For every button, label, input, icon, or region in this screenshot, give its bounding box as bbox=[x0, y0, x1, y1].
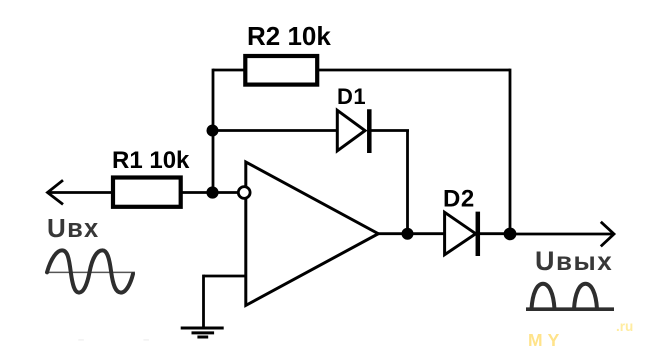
input arrow bbox=[48, 180, 114, 204]
output waveform hump 2 bbox=[574, 284, 597, 309]
svg-text:R1 10k: R1 10k bbox=[112, 147, 190, 174]
node junction R1/feedback bbox=[206, 186, 218, 198]
svg-text:MY: MY bbox=[528, 330, 564, 350]
output arrow bbox=[510, 222, 614, 247]
svg-text:Uвх: Uвх bbox=[47, 213, 100, 243]
resistor R1 bbox=[113, 178, 181, 207]
wire right vertical from top to output node bbox=[509, 69, 512, 234]
svg-text:R2 10k: R2 10k bbox=[247, 21, 331, 51]
wire D2 to output node bbox=[478, 232, 510, 235]
diode D1 bbox=[337, 109, 369, 153]
output waveform baseline bbox=[526, 307, 614, 311]
op-amp U1 triangle bbox=[246, 162, 378, 305]
node op-amp output junction bbox=[402, 228, 414, 240]
input sine waveform bbox=[47, 250, 133, 292]
wire non-inverting input bbox=[204, 275, 246, 278]
wire D1 row right segment bbox=[369, 129, 409, 132]
wire left vertical from top to R1 node bbox=[212, 69, 215, 193]
wire ground stem bbox=[202, 275, 205, 328]
ground symbol bbox=[181, 328, 224, 337]
wire D1 row left segment bbox=[213, 129, 338, 132]
op-amp inverting input bubble bbox=[238, 187, 250, 199]
wire op-amp output bbox=[378, 232, 445, 235]
svg-text:Uвых: Uвых bbox=[535, 246, 613, 276]
node junction D1/feedback bbox=[207, 125, 219, 137]
svg-text:D1: D1 bbox=[337, 84, 366, 109]
wire feedback top horizontal bbox=[213, 69, 510, 72]
svg-text:D2: D2 bbox=[443, 186, 475, 213]
wire vertical D1 to output node bbox=[406, 131, 409, 235]
output waveform hump 1 bbox=[532, 284, 555, 309]
node output junction bbox=[504, 228, 517, 241]
wire R1 to op-amp inverting input bbox=[180, 191, 239, 194]
svg-text:– –: – – bbox=[78, 334, 177, 346]
resistor R2 bbox=[245, 56, 317, 85]
svg-text:.ru: .ru bbox=[616, 319, 633, 334]
diode D2 bbox=[445, 212, 478, 256]
input sine waveform axis bbox=[46, 271, 135, 273]
